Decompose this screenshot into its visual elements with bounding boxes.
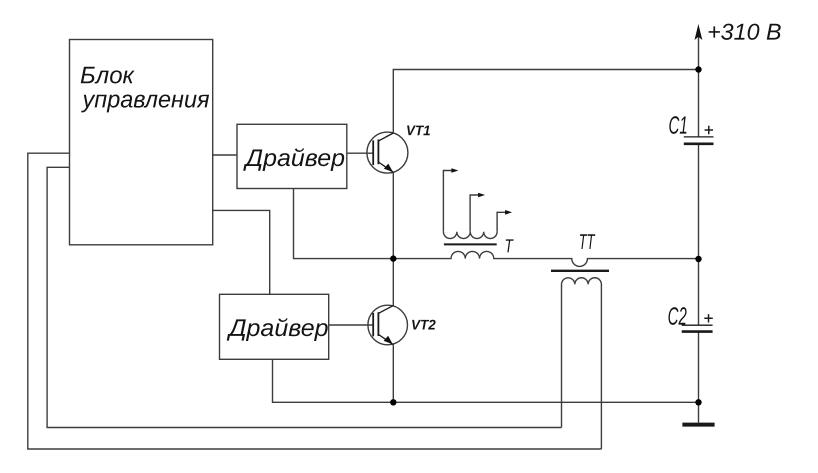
svg-text:VT1: VT1 xyxy=(406,122,431,138)
svg-text:TT: TT xyxy=(579,230,596,254)
svg-text:+310 В: +310 В xyxy=(707,19,782,45)
svg-text:Драйвер: Драйвер xyxy=(242,145,345,172)
svg-text:C1: C1 xyxy=(669,112,688,140)
svg-text:Блок: Блок xyxy=(80,62,136,89)
svg-text:C2: C2 xyxy=(668,303,688,331)
svg-text:T: T xyxy=(504,235,514,257)
svg-text:VT2: VT2 xyxy=(411,317,436,333)
svg-text:Драйвер: Драйвер xyxy=(226,315,329,342)
svg-text:управления: управления xyxy=(81,86,210,113)
